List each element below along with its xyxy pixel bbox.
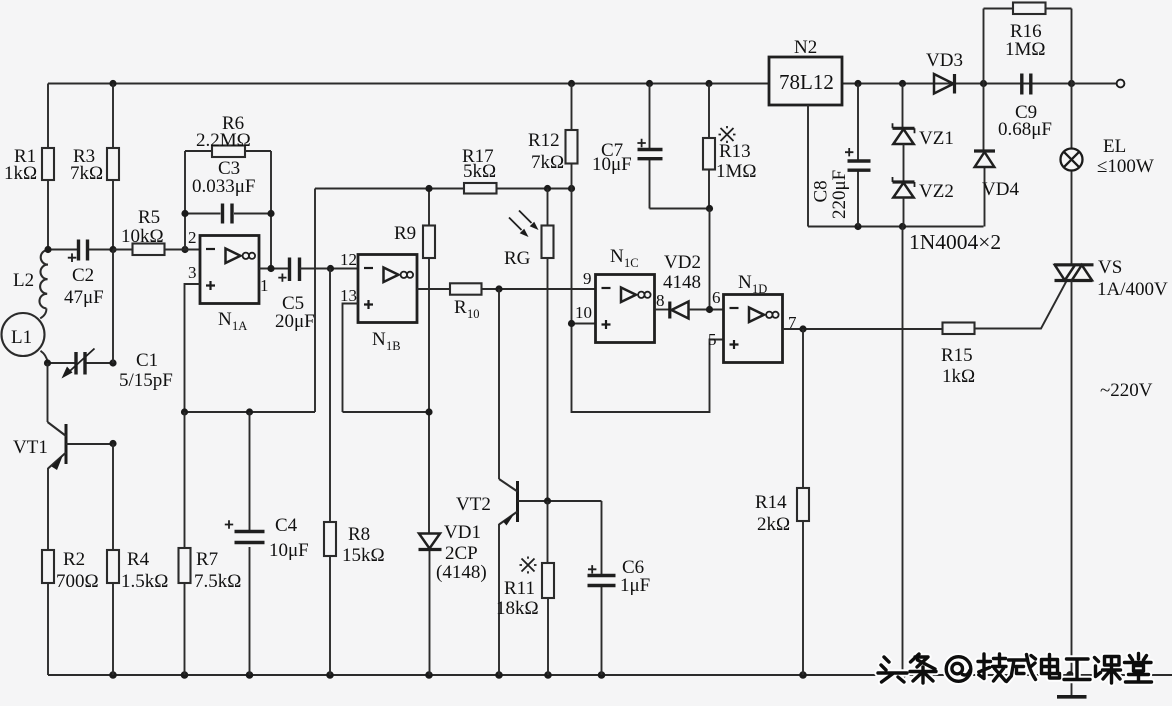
capacitor C2 [48,240,113,263]
svg-text:C2: C2 [72,265,94,286]
svg-text:VS: VS [1098,257,1122,278]
svg-text:5: 5 [708,330,717,349]
svg-text:VZ2: VZ2 [919,181,954,202]
svg-text:3: 3 [188,263,197,282]
RG light arrows [509,211,539,238]
capacitor C3 [185,204,271,224]
op-amp N1C [596,275,655,343]
svg-text:1MΩ: 1MΩ [1005,39,1046,60]
svg-text:2.2MΩ: 2.2MΩ [196,130,251,151]
op-amp N1D [724,295,783,363]
svg-text:10kΩ: 10kΩ [121,226,164,247]
node pin10 riser dot [568,320,575,327]
wire R3 to C1 segment [112,250,114,364]
svg-text:1kΩ: 1kΩ [942,366,975,387]
svg-text:1D: 1D [752,282,767,296]
lamp EL [1061,84,1083,265]
svg-text:VT1: VT1 [13,437,48,458]
capacitor C8 [845,84,871,227]
wire VZ line to bottom rail [902,227,904,676]
wire ground bus A [185,411,316,413]
resistor R17 [464,183,497,194]
wire R6 C3 left riser [184,151,186,250]
transistor VT1 [48,363,114,550]
node pin2/R5/C2 row dots [44,246,188,253]
diode VD3 [934,74,955,94]
node VT2 base dot [544,497,551,504]
svg-text:R5: R5 [138,207,160,228]
capacitor C6 [588,501,616,675]
svg-text:1B: 1B [386,339,401,353]
watermark touteng logo text [878,654,1152,684]
node C5 to N1B dot [327,265,334,272]
svg-text:RG: RG [504,248,531,269]
op-amp N1B [358,255,417,323]
svg-text:R13: R13 [719,141,751,162]
resistor R3 [107,84,119,250]
antenna coil L1 [2,308,48,362]
resistor R8 [324,269,336,676]
svg-text:6: 6 [712,288,721,307]
svg-text:R: R [454,297,467,318]
resistor R2 [42,550,54,675]
wire N1D output row [783,328,943,330]
ground [1057,675,1087,697]
wire N1B output to N1C pin9 [417,288,596,290]
transistor VT2 [499,289,602,675]
svg-text:R7: R7 [196,549,218,570]
resistor R1 [42,84,54,251]
svg-text:9: 9 [583,269,592,288]
resistor R14 [797,329,809,675]
node N1A output riser dot [267,265,274,272]
svg-text:R9: R9 [394,223,416,244]
node VD2 pin6 dot [706,306,713,313]
svg-text:R14: R14 [755,492,787,513]
svg-text:1A: 1A [232,319,247,333]
svg-text:N: N [610,246,624,267]
resistor R9 [423,189,435,413]
node bus B dot [425,408,432,415]
resistor R7 [179,412,191,675]
variable capacitor C1 [48,349,114,379]
svg-text:L1: L1 [11,327,32,348]
svg-text:R2: R2 [63,549,85,570]
svg-text:N: N [372,329,386,350]
resistor R11 [542,501,554,675]
svg-text:1C: 1C [624,256,639,270]
node rail to ground stub dot [1066,671,1074,679]
diode VD1 [419,412,442,675]
node N2 ground dots [854,223,906,230]
resistor R5 [113,244,200,256]
svg-text:~220V: ~220V [1100,380,1153,401]
wire +12V top rail [48,83,1117,85]
svg-text:7kΩ: 7kΩ [70,163,103,184]
svg-text:(4148): (4148) [436,562,487,583]
svg-text:78L12: 78L12 [779,70,834,94]
svg-text:10μF: 10μF [592,154,632,175]
wire N1C output [655,309,670,311]
svg-text:N2: N2 [794,37,817,58]
svg-text:VZ1: VZ1 [919,128,954,149]
diode VD4 [974,84,995,227]
resistor R15 [943,281,1067,334]
svg-text:R4: R4 [127,549,150,570]
resistor R10 [450,283,482,294]
node R10 output dot [495,285,502,292]
svg-text:C1: C1 [136,350,158,371]
svg-text:1N4004×2: 1N4004×2 [909,230,1001,254]
resistor R13 [703,84,715,209]
node top rail junction dots [109,80,1075,87]
svg-text:47μF: 47μF [64,287,104,308]
svg-text:R8: R8 [348,524,370,545]
wire bottom common rail [48,674,1172,676]
svg-text:220μF: 220μF [829,170,850,219]
svg-text:VD2: VD2 [664,252,701,273]
node C3 riser dots [181,210,274,217]
svg-text:8: 8 [656,291,665,310]
wire R12 riser to pin10 and pin5 loop [572,189,724,413]
terminal open circle [1072,80,1125,88]
node bus A dots [181,408,253,415]
svg-text:10: 10 [575,303,592,322]
inductor L2 [39,250,48,308]
svg-text:18kΩ: 18kΩ [496,598,539,619]
svg-text:5kΩ: 5kΩ [463,161,496,182]
svg-text:15kΩ: 15kΩ [342,545,385,566]
node y188 dots [425,185,575,192]
capacitor C7 [637,84,662,209]
wire feedback row y188 [315,188,572,190]
resistor R16 loop [984,3,1072,84]
svg-text:12: 12 [340,250,357,269]
resistor R12 [566,84,578,189]
svg-text:EL: EL [1103,136,1126,157]
svg-text:7kΩ: 7kΩ [531,152,564,173]
zener diode VZ1 [893,84,915,183]
svg-text:C4: C4 [275,515,298,536]
capacitor C5 [278,258,358,282]
svg-text:5/15pF: 5/15pF [119,370,173,391]
capacitor C4 [225,412,265,675]
reference mark R11 [520,557,537,574]
wire riser x315 [314,189,316,413]
wire N1B pin13 loop [343,304,359,413]
svg-text:20μF: 20μF [275,311,315,332]
svg-text:L2: L2 [13,270,34,291]
triac VS [1054,265,1094,675]
zener diode VZ2 [893,177,915,227]
photoresistor RG [542,189,554,502]
svg-text:2kΩ: 2kΩ [757,514,790,535]
wire N1A output [259,268,290,270]
node C7 R13 dot [706,205,713,212]
node pin7 R14 dot [799,325,806,332]
svg-text:1μF: 1μF [620,575,650,596]
svg-text:2CP: 2CP [445,543,478,564]
svg-text:10: 10 [467,307,480,321]
svg-text:13: 13 [340,286,357,305]
node bottom rail junction dots [109,671,1074,679]
svg-text:≤100W: ≤100W [1097,156,1154,177]
svg-text:1A/400V: 1A/400V [1097,279,1168,300]
svg-text:VD3: VD3 [926,50,963,71]
wire ground bus B [343,411,430,413]
svg-text:1MΩ: 1MΩ [716,161,757,182]
svg-text:7.5kΩ: 7.5kΩ [194,571,241,592]
svg-text:VD1: VD1 [444,522,481,543]
node VT1 base dot [109,440,116,447]
svg-text:0.033μF: 0.033μF [192,176,256,197]
svg-text:10μF: 10μF [269,540,309,561]
svg-text:R11: R11 [504,578,535,599]
wire C7 R13 bottom link [650,208,710,210]
svg-text:4148: 4148 [663,272,701,293]
diode VD2 [670,302,724,319]
regulator N2 78L12 [769,57,842,105]
resistor R4 [107,444,119,676]
wire N2 ground lead [808,105,984,227]
wire R6 C3 right riser [270,151,272,269]
resistor R6 [185,146,271,158]
wire N1A pin3 lead [185,284,201,412]
svg-text:VD4: VD4 [982,179,1019,200]
svg-text:1: 1 [260,276,269,295]
wire N1C pin10 lead [572,323,596,325]
node C1 row dots [44,359,117,366]
wire riser to VD2 node [709,209,711,310]
svg-text:R12: R12 [528,130,560,151]
svg-text:N: N [738,272,752,293]
svg-text:VT2: VT2 [456,494,491,515]
svg-text:700Ω: 700Ω [56,571,99,592]
svg-text:2: 2 [188,228,197,247]
reference mark R13 [719,126,736,143]
svg-text:N: N [218,309,232,330]
svg-text:1kΩ: 1kΩ [4,163,37,184]
svg-text:1.5kΩ: 1.5kΩ [121,571,168,592]
op-amp N1A [200,236,259,304]
svg-text:0.68μF: 0.68μF [998,119,1052,140]
svg-text:R15: R15 [941,345,973,366]
capacitor C9 [1022,74,1031,95]
